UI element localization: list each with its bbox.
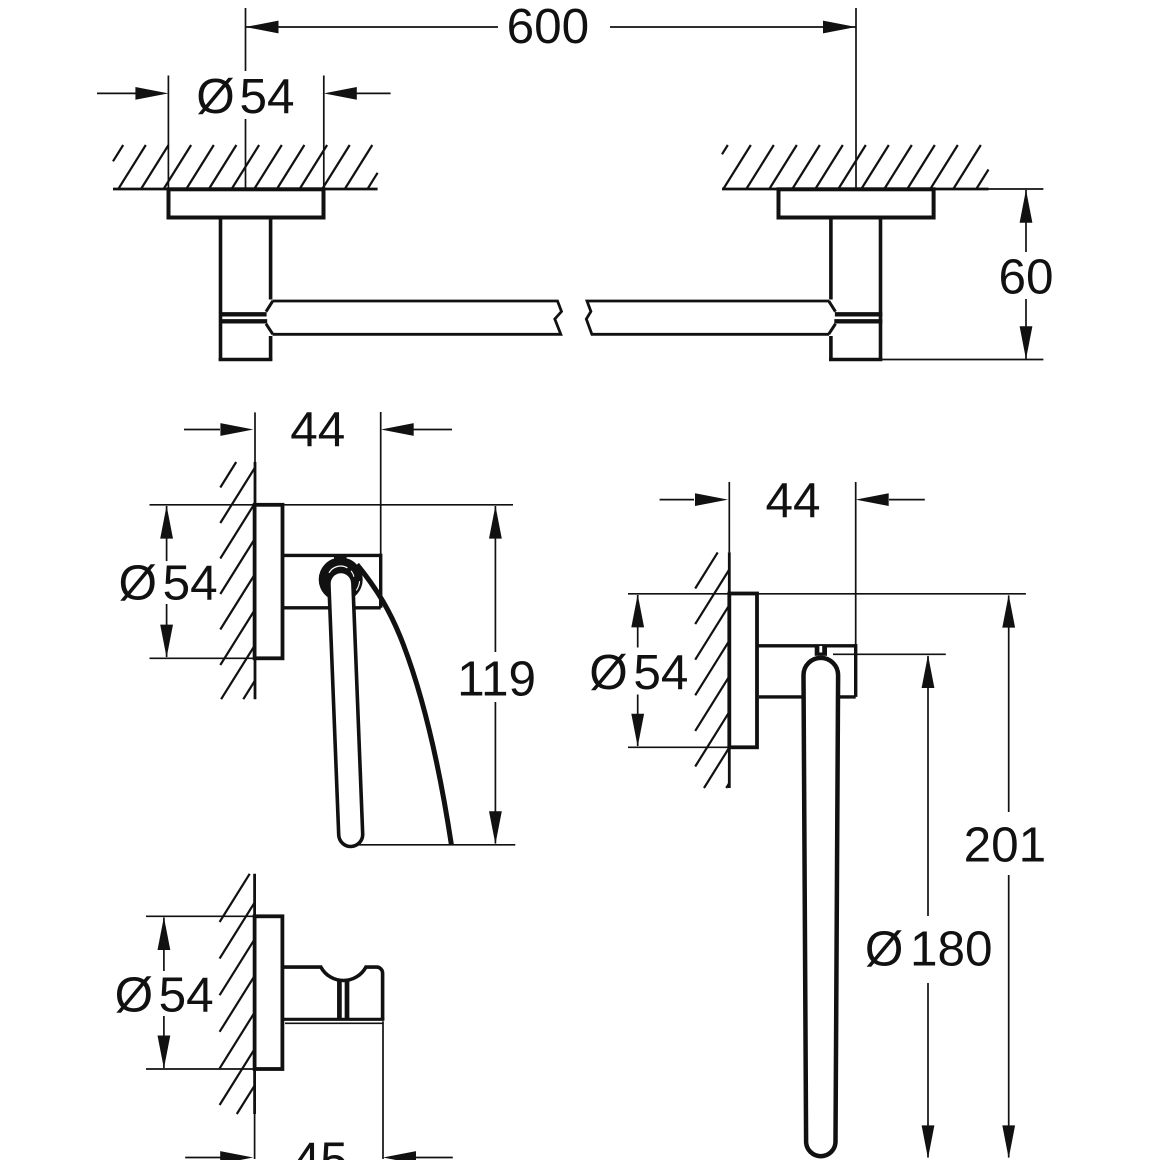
svg-text:44: 44 bbox=[290, 402, 345, 457]
svg-text:60: 60 bbox=[998, 249, 1053, 304]
dimension line 60 bbox=[1025, 190, 1027, 359]
dimension line Ø54 paper holder bbox=[166, 506, 168, 657]
svg-text:Ø: Ø bbox=[589, 645, 628, 700]
dimension line Ø54 robe hook bbox=[163, 918, 165, 1069]
wall surface line (towel-bar left mount) bbox=[113, 188, 378, 191]
roller housing (paper holder) bbox=[283, 554, 381, 608]
hook bottom line (robe hook) bbox=[283, 1018, 384, 1021]
svg-text:Ø: Ø bbox=[115, 967, 154, 1022]
extension line top of 60 dim bbox=[989, 188, 1044, 190]
pivot pin notch (paper holder) bbox=[334, 556, 347, 563]
ring housing (towel ring) bbox=[757, 644, 856, 697]
svg-text:54: 54 bbox=[159, 967, 214, 1022]
extension line 44 right (paper holder) bbox=[380, 412, 382, 555]
hook knob stem double lines bbox=[339, 982, 347, 1020]
wall surface line (towel ring) bbox=[728, 482, 730, 552]
towel ring profile (edge view) bbox=[804, 658, 839, 1156]
chamfer joint left post to bar bbox=[266, 301, 273, 334]
svg-text:45: 45 bbox=[293, 1132, 348, 1160]
dimension tails Ø54 towel-bar bbox=[97, 92, 391, 94]
svg-text:54: 54 bbox=[633, 645, 688, 700]
escutcheon flange (towel-bar left mount) bbox=[169, 189, 324, 217]
arrowhead Ø180 bottom bbox=[922, 1125, 935, 1158]
dimension tails 44 paper holder bbox=[184, 429, 452, 431]
post of towel-bar right mount bbox=[829, 218, 882, 360]
escutcheon flange (towel-bar right mount) bbox=[779, 189, 934, 217]
spindle arm (paper holder) bbox=[341, 584, 351, 835]
hook base contour line (robe hook) bbox=[285, 1022, 383, 1024]
arrowhead 201 bottom bbox=[1002, 1125, 1015, 1158]
extension line 45 right (robe hook) bbox=[382, 1021, 384, 1159]
arrowhead 60 bottom bbox=[1020, 326, 1033, 359]
extension line bottom of 119 dim bbox=[355, 844, 515, 846]
arrowhead 201 top bbox=[1002, 595, 1015, 628]
extension line 44 right (towel ring) bbox=[855, 482, 857, 646]
centerline extension left post bbox=[245, 8, 247, 189]
svg-text:Ø: Ø bbox=[118, 555, 157, 610]
dimension line Ø54 towel ring bbox=[637, 595, 639, 746]
dimension tails 45 bbox=[185, 1157, 453, 1159]
hook body outline (robe hook) bbox=[282, 967, 382, 1019]
shared top extension line (Ø54/201 towel ring) bbox=[628, 593, 1026, 595]
escutcheon flange (towel ring) bbox=[729, 594, 757, 748]
chamfer joint right post to bar bbox=[829, 301, 836, 334]
arrowhead Ø54 right (pointing left) bbox=[324, 87, 357, 100]
extension line bottom of 60 dim bbox=[882, 359, 1043, 361]
arrowhead 119 top bbox=[489, 506, 502, 539]
curved guard arm (paper holder) bbox=[357, 565, 451, 845]
wall surface line thick (paper holder) bbox=[254, 462, 257, 699]
arrowhead 44 left (towel ring) bbox=[695, 493, 728, 506]
arrowhead 119 bottom bbox=[489, 811, 502, 844]
extension line Ø180 top bbox=[833, 653, 946, 655]
towel bar left segment with break edge bbox=[273, 301, 562, 334]
svg-text:Ø: Ø bbox=[196, 69, 235, 124]
post of towel-bar left mount bbox=[219, 218, 273, 360]
arrowhead 45 right bbox=[383, 1151, 416, 1160]
extension lines Ø54 towel-bar flange bbox=[168, 76, 323, 190]
extension lines Ø54 paper holder bbox=[150, 505, 255, 659]
arrowhead Ø54 top (towel ring) bbox=[631, 594, 644, 627]
extension lines Ø54 robe hook bbox=[146, 916, 255, 1069]
svg-text:Ø: Ø bbox=[865, 921, 904, 976]
svg-text:600: 600 bbox=[507, 0, 590, 54]
wall surface line (robe hook) bbox=[253, 874, 256, 1114]
svg-text:54: 54 bbox=[163, 555, 218, 610]
wall hatching (towel ring) bbox=[695, 552, 729, 788]
pivot pin notch (towel ring) bbox=[815, 645, 827, 656]
wall hatching (towel-bar left mount) bbox=[113, 145, 378, 189]
arrowhead 600 left bbox=[246, 21, 279, 34]
extension line Ø54 bottom (towel ring) bbox=[628, 746, 729, 748]
arrowhead 44 right (paper holder) bbox=[381, 423, 414, 436]
dimension line 201 bbox=[1008, 596, 1010, 1158]
towel bar right segment with break edge bbox=[586, 301, 829, 334]
escutcheon flange (paper holder) bbox=[255, 505, 283, 659]
wall hatching (paper holder) bbox=[220, 462, 255, 699]
centerline extension right post bbox=[855, 8, 857, 189]
wall surface line (towel-bar right mount) bbox=[722, 188, 989, 191]
dimension line 119 bbox=[494, 506, 496, 844]
wall surface line thick (towel ring) bbox=[728, 552, 731, 788]
svg-text:180: 180 bbox=[910, 921, 993, 976]
wall hatching (robe hook) bbox=[220, 874, 255, 1114]
wall hatching (towel-bar right mount) bbox=[722, 145, 989, 189]
wall line thin continuation (robe hook) bbox=[254, 1114, 256, 1159]
collar ring lines on right post bbox=[834, 314, 882, 321]
arrowhead Ø54 bottom (towel ring) bbox=[631, 714, 644, 747]
pivot boss circle (paper holder) bbox=[319, 558, 363, 602]
arrowhead Ø54 bottom (robe hook) bbox=[158, 1036, 171, 1069]
dimension line Ø180 bbox=[927, 656, 929, 1158]
arrowhead 44 left (paper holder) bbox=[220, 423, 253, 436]
arrowhead 44 right (towel ring) bbox=[856, 493, 889, 506]
arrowhead Ø180 top bbox=[922, 655, 935, 688]
wall surface line (paper holder) bbox=[254, 412, 256, 462]
arrowhead Ø54 left (pointing right) bbox=[135, 87, 168, 100]
dimension tails 44 towel ring bbox=[660, 499, 925, 501]
arrowhead 600 right bbox=[823, 21, 856, 34]
collar ring lines on left post bbox=[219, 314, 267, 321]
arrowhead Ø54 top (robe hook) bbox=[158, 917, 171, 950]
arrowhead Ø54 bottom (paper holder) bbox=[160, 625, 173, 658]
arrowhead 45 left bbox=[220, 1151, 253, 1160]
arrowhead 60 top bbox=[1020, 190, 1033, 223]
svg-text:119: 119 bbox=[457, 652, 536, 707]
svg-text:44: 44 bbox=[765, 473, 820, 528]
dimension line 600 bbox=[246, 26, 857, 28]
svg-text:54: 54 bbox=[239, 69, 294, 124]
svg-text:201: 201 bbox=[964, 818, 1047, 873]
arrowhead Ø54 top (paper holder) bbox=[160, 506, 173, 539]
shared top extension line (Ø54/119) bbox=[283, 504, 514, 506]
escutcheon flange (robe hook) bbox=[255, 916, 283, 1069]
